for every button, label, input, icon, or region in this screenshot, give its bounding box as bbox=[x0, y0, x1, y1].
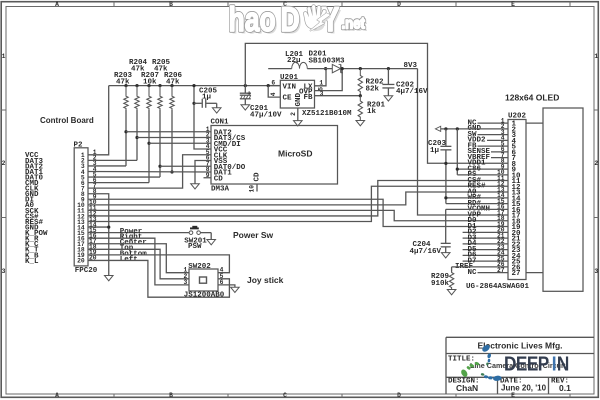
U202 short pin stubs bbox=[478, 122, 509, 124]
svg-text:UG-2864ASWAG01: UG-2864ASWAG01 bbox=[466, 283, 530, 291]
U201 pin 2 GND stub bbox=[297, 108, 299, 121]
resistor R207 10k pullup bbox=[147, 84, 150, 87]
DEEPIN watermark bbox=[504, 352, 569, 375]
resistor R205 47k pullup bbox=[158, 84, 161, 87]
wire SW202 pin6 to ground bbox=[218, 285, 235, 287]
wire CLK P2.7 to CON1.5 bbox=[88, 155, 211, 188]
capacitor C205 1u bbox=[192, 102, 195, 105]
GND net arrow at U202 pin 2 bbox=[441, 128, 508, 130]
svg-text:3: 3 bbox=[184, 279, 188, 286]
svg-text:2: 2 bbox=[2, 160, 6, 167]
svg-text:22µ: 22µ bbox=[287, 57, 301, 65]
ground at CON1 VSS bbox=[191, 184, 200, 189]
wire IREF to R209 bbox=[452, 266, 508, 268]
wire Left P2.20 to SW202 pin5 bbox=[88, 260, 229, 297]
op-amp/regulator U201 body bbox=[280, 80, 314, 108]
capacitor C204 4u7/16V bbox=[441, 242, 451, 244]
svg-text:20: 20 bbox=[77, 258, 85, 265]
title block frame bbox=[446, 336, 594, 338]
wire U202 to OLED module bottom bbox=[526, 272, 543, 274]
wire SCK P2.11 to OLED D0 bbox=[88, 210, 508, 220]
ground at C201 bbox=[241, 105, 250, 110]
U201 pin 1 LX wire bbox=[315, 69, 327, 86]
resistor R202 82k bbox=[359, 67, 362, 70]
svg-text:SB1003M3: SB1003M3 bbox=[309, 57, 346, 65]
wire D201 cathode to 8V3 bbox=[341, 68, 418, 70]
svg-text:CD: CD bbox=[254, 172, 262, 182]
resistor R209 910k bbox=[449, 272, 453, 290]
svg-text:47k: 47k bbox=[116, 78, 130, 86]
wire DAT2 P2.3 to CON1.1 bbox=[88, 165, 126, 167]
svg-text:47µ/10V: 47µ/10V bbox=[250, 111, 282, 119]
svg-text:4µ7/16V: 4µ7/16V bbox=[410, 248, 442, 256]
ground at U201 pin 2 bbox=[294, 121, 303, 126]
svg-text:10: 10 bbox=[249, 185, 256, 193]
svg-text:8V3: 8V3 bbox=[403, 62, 417, 70]
svg-text:CE: CE bbox=[283, 95, 293, 103]
svg-text:E: E bbox=[511, 1, 515, 8]
svg-text:hao: hao bbox=[229, 1, 276, 39]
svg-text:CON1: CON1 bbox=[211, 119, 230, 127]
wire VCOMH to C204 bbox=[446, 208, 508, 210]
svg-text:6: 6 bbox=[220, 279, 224, 286]
capacitor C203 1u bbox=[440, 145, 451, 147]
resistor R201 1k bbox=[358, 96, 362, 121]
svg-text:MicroSD: MicroSD bbox=[278, 149, 312, 159]
OLED connector U202 body bbox=[508, 120, 526, 280]
svg-text:D: D bbox=[397, 1, 401, 8]
resistor R203 47k pullup bbox=[124, 84, 127, 87]
svg-text:VIN: VIN bbox=[283, 83, 297, 91]
wire RES# P2.13 to OLED RES# bbox=[88, 186, 508, 221]
svg-text:82k: 82k bbox=[366, 86, 380, 94]
wire VDD1 tie to WR#/RD# bbox=[445, 163, 447, 203]
CON1 pin 10 CD stub bbox=[256, 184, 258, 192]
wire DAT3 P2.2 to CON1.2 bbox=[88, 159, 137, 161]
svg-text:0.1: 0.1 bbox=[559, 383, 571, 393]
svg-text:FPC20: FPC20 bbox=[75, 267, 98, 275]
ground at SW202 pin6 bbox=[231, 287, 240, 292]
svg-text:NC: NC bbox=[468, 269, 478, 277]
U201 pin 5 OVP wire bbox=[315, 69, 343, 91]
resistor R204 47k pullup bbox=[135, 84, 138, 87]
svg-text:C: C bbox=[283, 392, 287, 399]
ground at C202 bbox=[384, 96, 393, 101]
svg-text:+: + bbox=[247, 90, 252, 98]
wire U202 GND to C203 bbox=[444, 127, 447, 130]
svg-text:Power Sw: Power Sw bbox=[233, 230, 274, 240]
svg-text:Joy stick: Joy stick bbox=[247, 275, 284, 285]
ground at C205 bbox=[212, 108, 221, 113]
wire U202 to OLED module top bbox=[526, 122, 543, 124]
OLED module outline bbox=[543, 108, 583, 291]
svg-text:DEEP: DEEP bbox=[504, 352, 549, 375]
svg-text:3: 3 bbox=[320, 90, 324, 97]
wire Center P2.17 to SW202 pin1 bbox=[88, 244, 189, 273]
svg-text:ChaN: ChaN bbox=[456, 383, 478, 393]
svg-text:June 20, '10: June 20, '10 bbox=[501, 384, 547, 393]
inductor L201 22u bbox=[268, 68, 292, 70]
svg-text:10k: 10k bbox=[143, 78, 157, 86]
wire DAT1 P2.4 to CON1.8 bbox=[88, 170, 211, 173]
diode D201 SB1003M3 bbox=[332, 64, 340, 72]
svg-text:1: 1 bbox=[319, 80, 323, 87]
wire Top P2.18 to SW202 pin2 bbox=[88, 249, 189, 278]
svg-text:JS1200AB0: JS1200AB0 bbox=[184, 292, 225, 300]
svg-text:Control Board: Control Board bbox=[40, 116, 94, 125]
svg-text:1µ: 1µ bbox=[430, 147, 440, 155]
resistor R206 47k pullup bbox=[170, 84, 173, 87]
svg-text:1k: 1k bbox=[367, 108, 377, 116]
wire GND P2.8/P2.14 down to ground bbox=[88, 194, 109, 276]
svg-text:D: D bbox=[281, 1, 300, 39]
wire 8V3 down to OLED VPP bbox=[418, 69, 509, 215]
wire CMD P2.6 to CON1.3 bbox=[88, 182, 149, 184]
svg-text:1: 1 bbox=[2, 53, 6, 60]
joystick SW202 body bbox=[189, 269, 218, 291]
svg-text:.net: .net bbox=[342, 16, 366, 33]
haoDIY.net watermark logo bbox=[229, 1, 368, 42]
svg-text:4µ7/16V: 4µ7/16V bbox=[396, 88, 428, 96]
wire A0 P2.10 to OLED A0 bbox=[88, 192, 508, 205]
wire U202 C86/PS tie to GND bbox=[456, 127, 459, 130]
wire CON1.9 CD stub bbox=[204, 177, 212, 179]
wire Bottom P2.19 to SW202 pin4 bbox=[88, 255, 229, 273]
wire Right P2.16 to SW202 pin3 bbox=[88, 238, 189, 285]
svg-text:3: 3 bbox=[594, 268, 598, 275]
ground at SW201 bbox=[207, 240, 216, 245]
svg-text:4: 4 bbox=[270, 92, 277, 96]
svg-text:910k: 910k bbox=[431, 280, 450, 288]
svg-text:K_L: K_L bbox=[25, 258, 39, 266]
U201 pin 3 FB wire bbox=[315, 95, 361, 97]
wire DI P2.9 to OLED D1 bbox=[88, 199, 508, 226]
svg-text:A: A bbox=[55, 392, 59, 399]
ground under P2 GND bbox=[104, 276, 113, 281]
svg-text:E: E bbox=[511, 392, 515, 399]
wire DAT0 P2.5 to CON1.7 bbox=[88, 176, 160, 178]
U201 pin 6 VIN stub bbox=[268, 85, 280, 87]
wire P2.1 VCC to rail bbox=[88, 86, 109, 155]
svg-text:SW202: SW202 bbox=[188, 263, 211, 271]
svg-text:PSW: PSW bbox=[188, 243, 202, 251]
svg-text:B: B bbox=[169, 392, 173, 399]
svg-text:GND: GND bbox=[295, 92, 303, 106]
svg-text:XZ5121B010M: XZ5121B010M bbox=[302, 110, 352, 118]
svg-text:P2: P2 bbox=[74, 142, 84, 150]
pushbutton SW201 PSW bbox=[88, 232, 189, 234]
wire VCC rail to CON1.4 bbox=[194, 86, 211, 149]
microSD socket CON1 body bbox=[211, 126, 338, 185]
wire CS# P2.12 to OLED CS# bbox=[88, 181, 508, 216]
svg-text:2: 2 bbox=[594, 160, 598, 167]
svg-text:1: 1 bbox=[594, 53, 598, 60]
svg-text:3: 3 bbox=[2, 268, 6, 275]
ground at R201 bbox=[356, 121, 365, 126]
svg-text:2: 2 bbox=[290, 112, 297, 116]
svg-text:47k: 47k bbox=[166, 78, 180, 86]
ground at C204 bbox=[441, 253, 450, 258]
svg-text:128x64 OLED: 128x64 OLED bbox=[505, 93, 559, 103]
svg-text:27: 27 bbox=[512, 270, 521, 278]
svg-text:CD: CD bbox=[214, 175, 224, 183]
ground at R209 bbox=[447, 290, 456, 295]
svg-text:N: N bbox=[557, 352, 569, 375]
svg-text:U202: U202 bbox=[508, 113, 527, 121]
svg-text:A: A bbox=[55, 1, 59, 8]
connector P2 (FPC20, control board cable) bbox=[74, 148, 88, 266]
U201 pin 4 CE wire bbox=[268, 86, 280, 98]
svg-text:Electronic Lives Mfg.: Electronic Lives Mfg. bbox=[477, 341, 562, 351]
VCC rail wire bbox=[109, 85, 281, 87]
svg-text:6: 6 bbox=[271, 80, 275, 87]
svg-text:DM3A: DM3A bbox=[211, 186, 230, 194]
wire CON1.6 VSS to ground bbox=[195, 161, 211, 184]
svg-text:FB: FB bbox=[303, 94, 313, 102]
svg-text:B: B bbox=[169, 1, 173, 8]
capacitor C202 4u7/16V bbox=[387, 67, 390, 70]
svg-text:I: I bbox=[552, 352, 557, 375]
svg-text:U201: U201 bbox=[280, 74, 299, 82]
wire VCC top loop to OLED VDD1 bbox=[245, 43, 508, 163]
capacitor C201 47u/10V electrolytic bbox=[244, 84, 247, 87]
svg-text:1µ: 1µ bbox=[202, 93, 212, 101]
svg-text:D: D bbox=[397, 392, 401, 399]
